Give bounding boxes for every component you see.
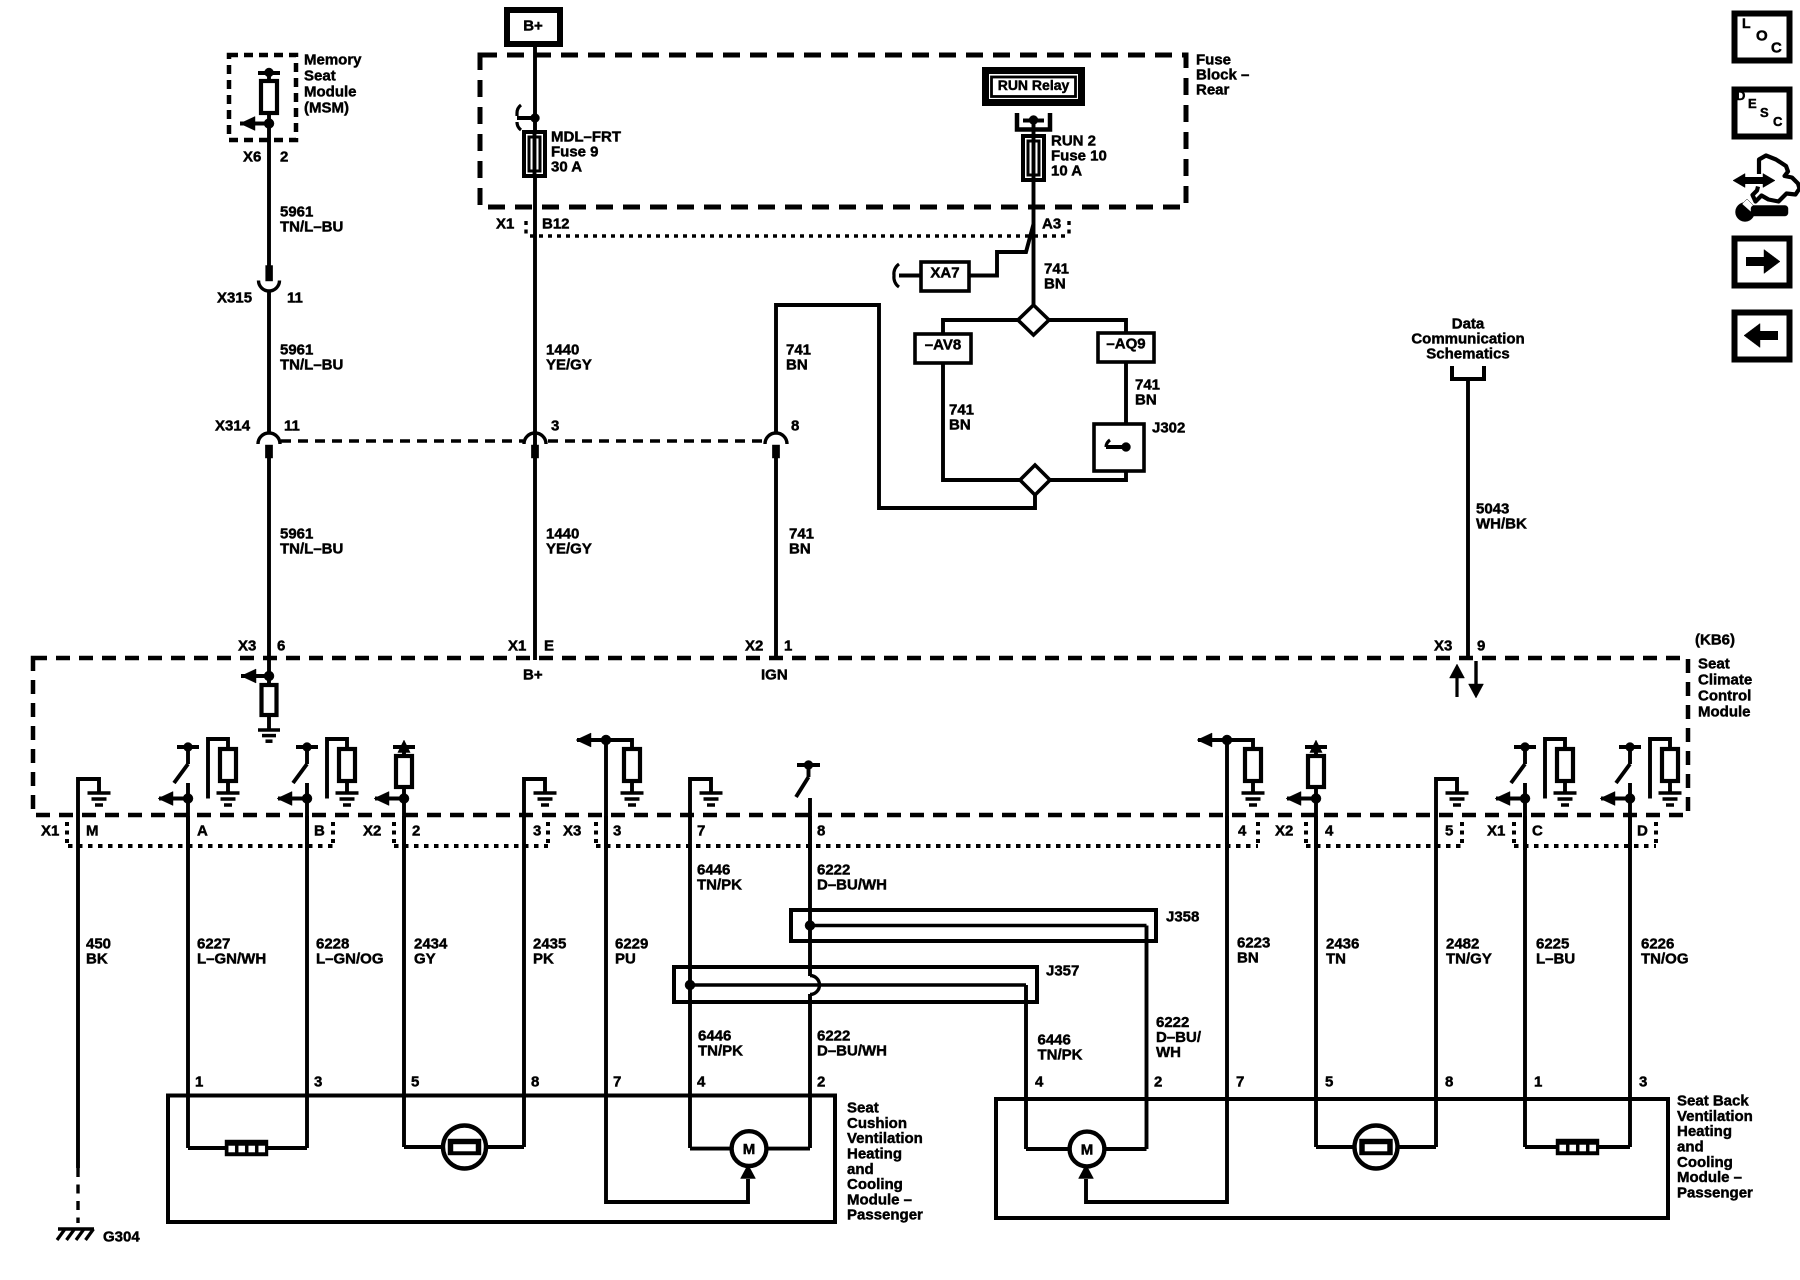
- svg-text:Memory: Memory: [304, 52, 362, 69]
- wire 2434 GY: [404, 816, 448, 1147]
- connector X1 pin E at module: [508, 638, 554, 655]
- wire 741 BN to module IGN: [776, 458, 814, 660]
- svg-text:TN: TN: [1326, 951, 1346, 968]
- svg-text:J302: J302: [1152, 420, 1185, 437]
- bus tap hook at fuse 9: [517, 105, 540, 130]
- svg-text:4: 4: [1238, 823, 1247, 840]
- svg-text:Passenger: Passenger: [1677, 1184, 1753, 1201]
- switch with resistor at pin A inside module: [158, 739, 240, 850]
- label B+ inside module: [523, 667, 543, 684]
- motor drive arrow seat back: [1079, 1165, 1228, 1203]
- svg-text:5: 5: [411, 1074, 419, 1091]
- ground G304: [57, 1229, 140, 1246]
- svg-text:Control: Control: [1698, 688, 1751, 705]
- svg-text:PK: PK: [533, 951, 554, 968]
- svg-text:TN/PK: TN/PK: [698, 1043, 743, 1060]
- svg-text:X3: X3: [563, 823, 581, 840]
- svg-text:2: 2: [1154, 1074, 1162, 1091]
- svg-text:D: D: [1637, 823, 1648, 840]
- heater element pins 1-3 seat cushion: [188, 1140, 307, 1156]
- svg-text:XA7: XA7: [930, 265, 959, 282]
- svg-text:–AV8: –AV8: [925, 337, 961, 354]
- svg-text:TN/L–BU: TN/L–BU: [280, 541, 343, 558]
- svg-text:C: C: [1532, 823, 1543, 840]
- harness dashed line X314 row: [281, 439, 764, 442]
- svg-text:Module: Module: [304, 84, 357, 101]
- label Fuse Block - Rear: [1196, 52, 1249, 99]
- splice pack J357: [674, 963, 1079, 1003]
- fuse MDL-FRT Fuse 9 30A: [524, 129, 621, 176]
- svg-text:C: C: [1773, 114, 1783, 129]
- svg-text:M: M: [86, 823, 99, 840]
- svg-text:M: M: [1081, 1142, 1094, 1159]
- svg-text:A3: A3: [1042, 216, 1061, 233]
- wire to fusible link AV8: [943, 320, 1018, 334]
- svg-text:Module: Module: [1698, 704, 1751, 721]
- svg-text:3: 3: [1639, 1074, 1647, 1091]
- icon vehicle with arrows and wrench: [1733, 156, 1800, 222]
- wire fuse10 to connector A3 and splice: [1032, 180, 1036, 306]
- svg-text:8: 8: [1445, 1074, 1453, 1091]
- svg-text:(KB6): (KB6): [1695, 632, 1735, 649]
- wire fuse9 to connector B12: [533, 176, 537, 660]
- tap resistor at pin 4 inside module: [1197, 733, 1265, 850]
- wire 741 BN loop to IGN drop: [776, 305, 1035, 508]
- icon box arrow right: [1735, 239, 1790, 286]
- wire 6226 TN/OG: [1630, 816, 1689, 1147]
- svg-text:L–BU: L–BU: [1536, 951, 1575, 968]
- svg-text:GY: GY: [414, 951, 436, 968]
- module MSM Memory Seat Module dashed box: [229, 55, 296, 140]
- label Memory Seat Module (MSM): [304, 52, 362, 117]
- svg-text:O: O: [1756, 28, 1768, 45]
- label 741 BN above connector 8: [786, 342, 811, 374]
- ground path at pin 7 inside module: [690, 779, 723, 816]
- svg-text:TN/OG: TN/OG: [1641, 951, 1689, 968]
- wire 1440 YE/GY labels: [546, 342, 592, 558]
- wire 741 BN below AQ9: [1126, 362, 1160, 424]
- icon box arrow left: [1735, 313, 1790, 360]
- svg-text:BN: BN: [786, 357, 808, 374]
- svg-text:B: B: [314, 823, 325, 840]
- svg-text:8: 8: [791, 418, 799, 435]
- svg-text:L: L: [1742, 15, 1751, 31]
- wire 2482 TN/GY: [1436, 816, 1492, 1147]
- motor pins 4-2 seat cushion: [690, 1131, 810, 1166]
- label Data Communication Schematics: [1411, 316, 1524, 363]
- svg-text:X2: X2: [745, 638, 763, 655]
- wire 6228 L-GN/OG: [307, 816, 384, 1148]
- ground path at pin 5 inside module: [1436, 779, 1469, 816]
- pin labels seat back module: [1035, 1074, 1647, 1091]
- connector 8 on 741 wire: [765, 418, 799, 458]
- svg-text:D: D: [1736, 88, 1745, 103]
- wire 6222 D-BU/WH from pin 8: [810, 816, 887, 1148]
- motor drive arrow seat cushion: [606, 1165, 756, 1203]
- module Seat Climate Control Module dashed box: [33, 658, 1688, 815]
- svg-text:L–GN/WH: L–GN/WH: [197, 951, 266, 968]
- svg-text:X1: X1: [41, 823, 59, 840]
- svg-text:Climate: Climate: [1698, 672, 1752, 689]
- thermistor pins 5-8 seat cushion: [404, 1126, 524, 1169]
- motor pins 4-2 seat back: [1026, 1132, 1147, 1167]
- svg-text:5: 5: [1445, 823, 1453, 840]
- svg-text:X1: X1: [1487, 823, 1505, 840]
- svg-text:3: 3: [314, 1074, 322, 1091]
- switch at pin 8 inside module: [796, 761, 820, 851]
- resistor to ground at module X3-6 input: [241, 660, 280, 741]
- svg-text:3: 3: [533, 823, 541, 840]
- inline connector XA7: [894, 224, 1034, 291]
- wire 6222 branch from J358 to seat back module pin 2: [1147, 926, 1202, 1150]
- svg-text:S: S: [1760, 105, 1769, 120]
- svg-text:BN: BN: [949, 417, 971, 434]
- label Seat Back module: [1677, 1093, 1753, 1202]
- connector X2 pin 1 at module: [745, 638, 792, 655]
- svg-text:X315: X315: [217, 290, 252, 307]
- svg-text:G304: G304: [103, 1229, 140, 1246]
- fuse RUN 2 Fuse 10 10A: [1023, 133, 1107, 180]
- svg-text:1: 1: [784, 638, 792, 655]
- svg-text:8: 8: [817, 823, 825, 840]
- svg-text:J357: J357: [1046, 963, 1079, 980]
- wire 6229 PU: [606, 816, 648, 1204]
- power node B+ box: [507, 10, 560, 44]
- label IGN inside module: [761, 667, 788, 684]
- svg-text:BK: BK: [86, 951, 108, 968]
- wire 741 BN below AV8: [943, 363, 1020, 480]
- svg-text:BN: BN: [1044, 276, 1066, 293]
- connector X314 pin 11: [215, 418, 300, 458]
- resistor inside MSM with tap bar and arrow: [240, 68, 280, 146]
- svg-text:X1: X1: [508, 638, 526, 655]
- switch with resistor at pin C inside module: [1495, 739, 1577, 850]
- svg-text:E: E: [544, 638, 554, 655]
- svg-text:4: 4: [1035, 1074, 1044, 1091]
- wire 6223 BN: [1227, 816, 1270, 1204]
- wire 6227 L-GN/WH: [188, 816, 266, 1148]
- wire B+ into fuse block: [533, 44, 537, 132]
- wire 2435 PK: [524, 816, 566, 1147]
- wire 5961 TN/L-BU middle segment: [269, 290, 343, 433]
- fuse block rear dashed box: [480, 55, 1186, 207]
- svg-text:5: 5: [1325, 1074, 1333, 1091]
- thermistor pins 5-8 seat back: [1316, 1126, 1436, 1169]
- svg-text:1: 1: [1534, 1074, 1542, 1091]
- connector 3 on 1440 wire: [524, 418, 559, 458]
- wire to fusible link AQ9: [1049, 320, 1126, 333]
- icon box DESC: [1735, 88, 1790, 137]
- svg-text:X6: X6: [243, 149, 261, 166]
- connector X3 pin 6 at module: [238, 638, 285, 655]
- svg-text:Passenger: Passenger: [847, 1207, 923, 1224]
- svg-text:3: 3: [551, 418, 559, 435]
- svg-text:3: 3: [613, 823, 621, 840]
- wire J302 to bottom splice: [1050, 471, 1126, 480]
- svg-text:Rear: Rear: [1196, 82, 1230, 99]
- svg-text:1: 1: [195, 1074, 203, 1091]
- wire 6446 branch from J357 to seat back module pin 4: [1026, 985, 1083, 1149]
- data link arrows inside module: [1450, 661, 1484, 698]
- svg-text:J358: J358: [1166, 909, 1199, 926]
- svg-text:2: 2: [817, 1074, 825, 1091]
- fusible link -AQ9 box: [1098, 333, 1154, 362]
- svg-text:11: 11: [287, 290, 303, 307]
- label (KB6) Seat Climate Control Module: [1695, 632, 1752, 721]
- svg-text:7: 7: [613, 1074, 621, 1091]
- svg-text:BN: BN: [789, 541, 811, 558]
- icon box LOC: [1735, 14, 1790, 61]
- wire 5961 TN/L-BU upper segment: [269, 146, 343, 266]
- wire 450 BK to ground: [78, 816, 111, 1223]
- svg-text:9: 9: [1477, 638, 1485, 655]
- wire 5043 WH/BK: [1468, 392, 1527, 660]
- ground path at pin 3 X2 inside module: [524, 779, 557, 816]
- svg-text:2: 2: [412, 823, 420, 840]
- svg-text:30 A: 30 A: [551, 159, 582, 176]
- svg-text:B+: B+: [523, 667, 543, 684]
- switch with resistor at pin D inside module: [1600, 739, 1682, 850]
- connector X3 pin 9 at module: [1434, 638, 1485, 655]
- connector strip X1 B12 / A3: [496, 216, 1069, 238]
- svg-text:YE/GY: YE/GY: [546, 357, 592, 374]
- svg-text:6: 6: [277, 638, 285, 655]
- svg-text:X3: X3: [238, 638, 256, 655]
- module connector strip dotted lines and dividers: [67, 822, 1656, 846]
- svg-text:WH: WH: [1156, 1044, 1181, 1061]
- svg-text:X314: X314: [215, 418, 251, 435]
- svg-text:7: 7: [697, 823, 705, 840]
- connector X315 pin 11: [217, 266, 303, 307]
- svg-text:4: 4: [1325, 823, 1334, 840]
- svg-text:D–BU/WH: D–BU/WH: [817, 1043, 887, 1060]
- wire 6225 L-BU: [1525, 816, 1575, 1147]
- svg-text:B+: B+: [523, 18, 543, 35]
- svg-text:(MSM): (MSM): [304, 100, 349, 117]
- svg-text:X2: X2: [1275, 823, 1293, 840]
- module Seat Back Ventilation Heating and Cooling Module box: [996, 1099, 1668, 1218]
- relay socket bracket: [1017, 113, 1050, 136]
- relay RUN Relay box: [986, 71, 1082, 103]
- svg-text:BN: BN: [1135, 392, 1157, 409]
- tap resistor at pin 3 X3 inside module: [576, 733, 644, 850]
- splice pack J358: [791, 909, 1199, 942]
- wire 2436 TN: [1316, 816, 1359, 1147]
- svg-text:RUN Relay: RUN Relay: [998, 77, 1070, 93]
- label Seat Cushion module: [847, 1100, 923, 1224]
- connector strip labels row: [41, 823, 1648, 840]
- svg-text:BN: BN: [1237, 950, 1259, 967]
- svg-text:TN/L–BU: TN/L–BU: [280, 357, 343, 374]
- svg-text:TN/PK: TN/PK: [1038, 1047, 1083, 1064]
- pin labels seat cushion module: [195, 1074, 825, 1091]
- svg-text:L–GN/OG: L–GN/OG: [316, 951, 384, 968]
- svg-text:4: 4: [697, 1074, 706, 1091]
- svg-text:A: A: [197, 823, 208, 840]
- svg-text:7: 7: [1236, 1074, 1244, 1091]
- svg-text:11: 11: [284, 418, 300, 435]
- svg-text:IGN: IGN: [761, 667, 788, 684]
- svg-text:2: 2: [280, 149, 288, 166]
- sensor resistor at pin 4 X2 inside module: [1286, 740, 1327, 850]
- fusible link -AV8 box: [915, 334, 971, 363]
- svg-text:TN/GY: TN/GY: [1446, 951, 1492, 968]
- wire 5961 TN/L-BU lower segment: [269, 458, 343, 660]
- svg-text:Schematics: Schematics: [1426, 346, 1509, 363]
- svg-text:Seat: Seat: [1698, 656, 1730, 673]
- svg-text:D–BU/WH: D–BU/WH: [817, 877, 887, 894]
- svg-text:Seat: Seat: [304, 68, 336, 85]
- svg-text:M: M: [743, 1141, 756, 1158]
- ground path at pin M inside module: [78, 779, 111, 816]
- svg-text:8: 8: [531, 1074, 539, 1091]
- splice diamond bottom: [1020, 465, 1050, 495]
- svg-text:E: E: [1748, 96, 1757, 111]
- svg-text:YE/GY: YE/GY: [546, 541, 592, 558]
- svg-text:PU: PU: [615, 951, 636, 968]
- svg-text:–AQ9: –AQ9: [1106, 336, 1145, 353]
- off page reference bracket: [1452, 366, 1484, 392]
- svg-text:10 A: 10 A: [1051, 163, 1082, 180]
- svg-text:B12: B12: [542, 216, 570, 233]
- svg-text:TN/PK: TN/PK: [697, 877, 742, 894]
- svg-text:TN/L–BU: TN/L–BU: [280, 219, 343, 236]
- switch with resistor at pin B inside module: [277, 739, 359, 850]
- junction block J302: [1094, 420, 1185, 471]
- svg-text:X2: X2: [363, 823, 381, 840]
- splice diamond top: [1018, 305, 1049, 335]
- label 741 BN below A3: [1044, 261, 1069, 293]
- svg-text:X1: X1: [496, 216, 514, 233]
- svg-text:X3: X3: [1434, 638, 1452, 655]
- svg-text:C: C: [1771, 40, 1782, 57]
- heater element pins 1-3 seat back: [1525, 1139, 1630, 1155]
- wire 6446 TN/PK from pin 7: [690, 816, 743, 1148]
- sensor resistor at pin 2 inside module: [374, 740, 415, 850]
- connector X6 pin 2: [243, 149, 288, 166]
- module Seat Cushion Ventilation Heating and Cooling Module box: [168, 1096, 835, 1223]
- svg-text:WH/BK: WH/BK: [1476, 516, 1527, 533]
